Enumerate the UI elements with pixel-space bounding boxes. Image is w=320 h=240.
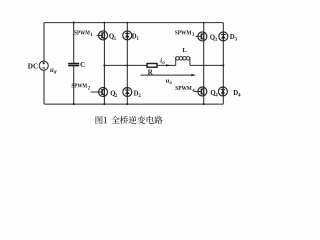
DC voltage source ud [39,61,48,70]
wire gate Q3 [196,35,202,37]
wire capacitor branch upper [73,23,75,64]
transistor Q1 [99,31,108,40]
caption char 图 [96,116,103,124]
caption char 全 [111,116,119,124]
label Q4 [210,90,218,99]
caption char 电 [147,116,154,124]
inductor L [176,57,190,66]
diode D3 [219,32,228,41]
node A (left leg midpoint) [103,64,105,66]
wire gate Q2 [91,91,102,93]
label uo [166,78,173,87]
label SPWM3 [175,29,195,38]
junction mid wire / D1-D2 leg [126,64,128,66]
label io [160,57,165,66]
diode D2 [123,88,132,97]
arrow io [166,64,171,66]
capacitor C [68,64,79,66]
caption char 1 [104,117,107,123]
arrow uo [141,74,197,76]
wire left Q leg [103,23,105,105]
wire output mid left [104,64,175,66]
label D1 [132,33,140,42]
junction bottom rail / Q2 leg [103,103,105,105]
caption char 桥 [120,116,128,124]
junction top rail / D1 leg [126,22,128,24]
svg-text:C: C [80,61,85,69]
wire bottom rail [44,103,223,105]
wire right D leg [222,23,224,105]
transistor Q3 [198,32,207,41]
label D3 [230,34,238,43]
svg-text:SPWM: SPWM [74,29,90,36]
junction bottom rail / Q4 leg [203,103,205,105]
node B (right leg midpoint) [222,64,224,66]
wire right Q leg [203,23,205,105]
caption char 逆 [129,116,137,124]
svg-text:SPWM: SPWM [175,29,192,36]
label Q1 [109,34,117,43]
label SPWM2 [71,83,90,92]
wire left side lower [43,70,45,104]
wire left side upper [43,23,45,62]
transistor Q2 [99,88,108,97]
caption char 路 [154,116,162,124]
wire capacitor branch lower [73,66,75,104]
svg-text:L: L [182,47,187,54]
junction top rail / Q3 leg [203,22,205,24]
wire output mid right [190,64,223,66]
diode D1 [123,31,132,40]
junction top rail / capacitor [73,22,75,24]
junction bottom rail / D2 leg [126,103,128,105]
label D2 [134,91,142,100]
caption char 变 [137,116,145,124]
junction bottom rail / capacitor [73,103,75,105]
wire top rail [44,22,223,24]
wire gate Q1 [97,34,103,36]
junction top rail / Q1 leg [104,22,106,24]
label Q2 [110,91,118,100]
wire gate Q4 [194,91,201,93]
svg-text:DC: DC [28,63,38,71]
label SPWM1 [74,29,93,38]
transistor Q4 [198,87,207,96]
svg-text:SPWM: SPWM [71,83,87,90]
diode D4 [218,87,227,96]
label Q3 [210,34,218,43]
svg-text:SPWM: SPWM [175,85,192,92]
label SPWM4 [175,85,195,94]
resistor R [147,64,157,68]
wire left D leg [126,23,128,105]
label D4 [233,90,241,99]
